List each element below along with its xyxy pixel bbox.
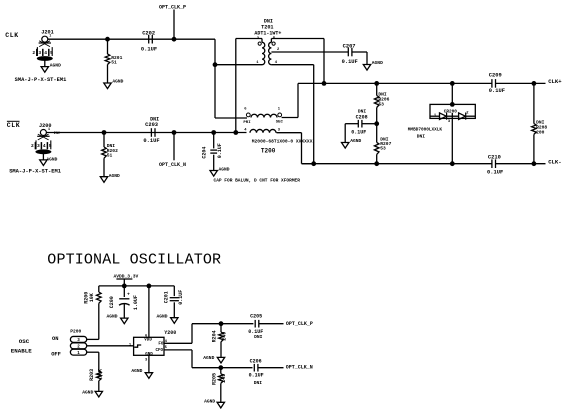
- wire diode centers: [447, 115, 459, 117]
- P200 pin 1 (OFF): [70, 349, 86, 356]
- label ON: [52, 336, 58, 342]
- wire C205 to OPT_CLK_P: [259, 323, 284, 325]
- label OFF: [51, 351, 61, 357]
- svg-text:CAP FOR BALUN, D CNT FOR XFORM: CAP FOR BALUN, D CNT FOR XFORMER: [214, 178, 301, 184]
- label T200 refdes: [261, 147, 276, 154]
- label INV at J200 pin: [54, 132, 61, 136]
- wire CLK main line: [48, 38, 215, 40]
- node junction T201 pin1 / T200 branch: [213, 62, 218, 67]
- svg-text:AGND: AGND: [82, 389, 93, 395]
- label OSC ENABLE: [11, 338, 32, 354]
- capacitor C207 0.1UF: [342, 43, 358, 64]
- ground AGND at J200: [40, 156, 58, 165]
- node junction CR200 on bottom line: [450, 161, 455, 166]
- Y200 enable pin 1 marker: [129, 344, 141, 348]
- ground AGND at R201: [104, 78, 124, 88]
- wire R207 top: [376, 124, 378, 143]
- svg-text:R203: R203: [89, 369, 95, 381]
- svg-text:10K: 10K: [97, 369, 103, 378]
- transformer T200 primary winding: [246, 113, 281, 118]
- wire R206 top: [376, 83, 378, 95]
- label CR200 part number MMBD7000LXX K DNI: [408, 127, 443, 139]
- net label OPT_CLK_P: [159, 5, 186, 11]
- svg-text:AGND: AGND: [203, 355, 214, 361]
- svg-text:SMA-J-P-X-ST-EM1: SMA-J-P-X-ST-EM1: [15, 77, 67, 83]
- svg-text:AGND: AGND: [372, 60, 383, 66]
- svg-text:OPT_CLK_N: OPT_CLK_N: [159, 162, 186, 168]
- wire P200 pin3 to R200: [87, 338, 99, 340]
- wire C204 bottom: [213, 155, 215, 171]
- svg-text:C207: C207: [343, 43, 356, 49]
- svg-text:3: 3: [38, 50, 41, 56]
- svg-text:AGND: AGND: [46, 156, 57, 162]
- wire P200 pin2 to Y200: [87, 345, 134, 347]
- svg-text:Y200: Y200: [164, 330, 176, 336]
- svg-text:53: 53: [378, 101, 384, 107]
- net label OPT_CLK_P output: [286, 321, 313, 327]
- label CR200: [444, 109, 458, 114]
- svg-text:249: 249: [221, 374, 227, 383]
- wire OPT_CLK_P stub: [173, 10, 175, 40]
- node junction T200 pin4 wire on bottom line: [311, 161, 316, 166]
- net label CLK-: [548, 159, 561, 166]
- wire R207 bottom: [376, 154, 378, 163]
- svg-text:0.1UF: 0.1UF: [143, 138, 159, 144]
- T201 pin number 4: [275, 61, 278, 65]
- wire to T201 pin 1: [215, 64, 262, 66]
- node junction OPT_CLK_N tap: [172, 130, 177, 135]
- node junction R206/R207/C208: [374, 121, 379, 126]
- Y200 FO pin: [158, 340, 167, 347]
- T201 pin number 2: [277, 48, 280, 52]
- svg-text:1: 1: [49, 35, 51, 39]
- ground AGND at C201: [157, 313, 179, 323]
- Y200 GND pin name and number: [145, 353, 153, 362]
- capacitor C201 0.1UF: [163, 286, 184, 318]
- P200 pin 3 (ON): [70, 336, 86, 343]
- node junction T201 pin6 on top line: [322, 81, 327, 86]
- svg-text:C203: C203: [145, 122, 158, 128]
- svg-text:VDD: VDD: [144, 339, 152, 343]
- ground AGND at J201: [41, 62, 61, 72]
- capacitor C205 0.1UF DNI: [248, 314, 263, 340]
- T201 secondary winding (right): [269, 39, 276, 65]
- svg-text:SEC: SEC: [276, 121, 284, 125]
- svg-text:249: 249: [221, 332, 227, 341]
- svg-text:51: 51: [111, 59, 117, 65]
- node junction C204: [211, 130, 216, 135]
- wire R208 vertical: [533, 83, 535, 163]
- node junction R202: [102, 130, 107, 135]
- wire CR200 to top line: [451, 83, 453, 104]
- svg-text:AGND: AGND: [350, 138, 361, 144]
- svg-text:C209: C209: [489, 72, 502, 78]
- svg-text:AGND: AGND: [219, 166, 230, 172]
- svg-text:OPT_CLK_P: OPT_CLK_P: [159, 5, 186, 11]
- wire AVDD rail: [99, 285, 175, 287]
- wire lower branch to C206: [221, 367, 253, 369]
- svg-text:OPT_CLK_N: OPT_CLK_N: [286, 365, 313, 371]
- resistor R207 53 DNI: [374, 137, 391, 155]
- node junction C200 on rail: [122, 284, 127, 289]
- connector J200 SMA: [31, 123, 52, 160]
- CR200 pin 1 wire and label: [430, 114, 440, 118]
- T200 pin number 4: [244, 129, 247, 133]
- T201 pin number 6: [273, 36, 276, 40]
- svg-text:5: 5: [50, 50, 53, 56]
- svg-text:1: 1: [48, 128, 50, 132]
- wire R201 top: [107, 39, 109, 54]
- wire C208 left to ground: [345, 124, 358, 143]
- svg-text:10K: 10K: [89, 293, 95, 302]
- svg-text:C200: C200: [109, 296, 115, 308]
- svg-text:ENABLE: ENABLE: [11, 347, 32, 354]
- svg-text:OSC: OSC: [19, 338, 30, 345]
- ground AGND at C207: [363, 60, 383, 70]
- T201 primary winding (left): [258, 39, 265, 65]
- svg-text:0.1UF: 0.1UF: [141, 47, 157, 53]
- wire R200 top: [98, 286, 100, 292]
- svg-text:2: 2: [31, 143, 34, 149]
- capacitor C210 0.1UF: [487, 155, 503, 176]
- svg-text:51: 51: [107, 153, 113, 159]
- svg-text:1.0UF: 1.0UF: [133, 295, 139, 310]
- T201 pin number 3: [257, 37, 260, 41]
- resistor R208 200 DNI: [532, 119, 548, 135]
- node junction OPT_CLK_P tap: [172, 37, 177, 42]
- svg-text:C206: C206: [250, 358, 262, 364]
- svg-text:4: 4: [43, 143, 46, 149]
- svg-text:AGND: AGND: [157, 313, 168, 319]
- svg-text:CLK+: CLK+: [548, 78, 562, 85]
- diode D2 of CR200: [459, 113, 466, 120]
- ground AGND at Y200: [131, 368, 152, 378]
- wire C206 to OPT_CLK_N: [258, 367, 284, 369]
- svg-text:DNI: DNI: [264, 18, 273, 24]
- wire Y200 GND: [148, 355, 150, 372]
- svg-text:CLK: CLK: [7, 122, 21, 129]
- wire CR200 to bottom line: [451, 122, 453, 164]
- capacitor C200 1.0UF: [109, 286, 139, 318]
- wire R202 bottom: [103, 158, 105, 177]
- wire CFO to lower branch: [164, 350, 221, 368]
- svg-text:FO: FO: [158, 343, 164, 347]
- net label CLK+: [548, 78, 562, 85]
- capacitor C209 0.1UF: [489, 72, 505, 94]
- svg-text:CR200: CR200: [444, 109, 458, 114]
- wire upper branch to C205: [221, 323, 253, 325]
- net label CLKB input (CLK with overbar): [7, 121, 21, 129]
- wire T201 pin6 to top line: [271, 39, 324, 84]
- svg-text:2: 2: [32, 50, 35, 56]
- capacitor C208 0.1UF DNI: [351, 108, 367, 135]
- svg-text:PRI: PRI: [243, 121, 251, 125]
- svg-text:+: +: [127, 293, 130, 298]
- ground AGND at R204: [203, 355, 224, 363]
- svg-text:J201: J201: [41, 30, 53, 36]
- svg-text:0.1UF: 0.1UF: [487, 169, 503, 175]
- node junction R208 top: [532, 81, 537, 86]
- diode package CR200 outline: [430, 104, 475, 118]
- ground AGND at C204: [210, 166, 230, 176]
- svg-text:CFO: CFO: [156, 349, 164, 353]
- wire C208 right to junction: [362, 123, 377, 125]
- diode D1 of CR200: [440, 113, 447, 120]
- label T200 part number: [252, 139, 313, 145]
- node CR200 box top: [450, 102, 455, 107]
- transformer T201 ADT1-1WT+ DNI: [254, 18, 281, 36]
- svg-text:P200: P200: [70, 329, 81, 335]
- svg-text:DNI: DNI: [358, 108, 367, 114]
- wire C207 to ground: [352, 52, 367, 65]
- svg-text:DNI: DNI: [254, 380, 263, 386]
- wire CLK corner down to T201 pin1 node: [214, 39, 216, 64]
- svg-text:DNI: DNI: [254, 334, 263, 340]
- resistor R203 10K: [89, 369, 103, 381]
- wire R205 bottom: [220, 383, 222, 402]
- svg-text:5: 5: [49, 143, 52, 149]
- svg-text:AGND: AGND: [107, 313, 118, 319]
- oscillator Y200 box: [134, 337, 164, 355]
- svg-text:OFF: OFF: [51, 351, 61, 357]
- wire CLKB main line: [46, 132, 246, 134]
- wire T201 pin2 to C207: [271, 51, 348, 53]
- power AVDD_3.3V: [114, 273, 139, 286]
- note CAP FOR BALUN: [214, 178, 301, 184]
- header P200 jumper: [70, 329, 81, 335]
- svg-text:0.1UF: 0.1UF: [351, 129, 366, 135]
- svg-text:C210: C210: [488, 155, 501, 161]
- T200 pin number 3: [278, 129, 281, 133]
- svg-text:AGND: AGND: [109, 173, 120, 179]
- svg-text:C201: C201: [163, 291, 169, 303]
- svg-text:MMBD7000LXXLK: MMBD7000LXXLK: [408, 127, 443, 132]
- resistor R204 249: [211, 330, 227, 342]
- wire R204 top: [220, 324, 222, 332]
- svg-text:0.1UF: 0.1UF: [178, 290, 184, 305]
- node junction R205: [218, 365, 223, 370]
- connector J201 SMA: [32, 30, 53, 67]
- svg-text:CLK-: CLK-: [548, 159, 561, 166]
- title OPTIONAL OSCILLATOR: [47, 251, 221, 268]
- CR200 pin 2 wire and label: [466, 112, 476, 117]
- T201 pin number 1: [256, 61, 259, 65]
- resistor R205 249: [211, 373, 227, 385]
- node junction R201: [105, 37, 110, 42]
- svg-text:AGND: AGND: [50, 62, 61, 68]
- node junction R208 bottom: [532, 161, 537, 166]
- net label CLK input: [5, 32, 19, 39]
- node junction R206 on top line: [374, 81, 379, 86]
- P200 pin 2 (common): [70, 343, 86, 350]
- svg-text:0.1UF: 0.1UF: [217, 143, 223, 158]
- svg-text:OPTIONAL OSCILLATOR: OPTIONAL OSCILLATOR: [47, 251, 221, 268]
- ground AGND at R205: [204, 398, 224, 408]
- T200 pin number 1: [278, 108, 281, 112]
- resistor R202 51 DNI: [102, 143, 118, 159]
- svg-text:T201: T201: [261, 25, 273, 31]
- wire R205 top: [220, 368, 222, 374]
- resistor R206 53 DNI: [374, 92, 389, 108]
- wire T200 pin1 to top line: [282, 83, 298, 117]
- wire Y200 VDD: [148, 286, 150, 337]
- label SMA-J-P-X-ST-EM1 for J201: [15, 77, 67, 83]
- CR200 center pin 3 bar: [448, 113, 452, 124]
- svg-text:T200: T200: [261, 147, 276, 154]
- wire bottom output line CLK-: [302, 163, 546, 165]
- ground AGND at C208: [342, 138, 362, 148]
- wire CLKB up to T201 pin 3: [236, 39, 262, 133]
- net label OPT_CLK_N output: [286, 365, 313, 371]
- wire down to T200 pin 6: [215, 65, 247, 118]
- svg-text:0.1UF: 0.1UF: [489, 88, 505, 94]
- wire R202 top: [103, 133, 105, 148]
- svg-text:CLK: CLK: [5, 32, 19, 39]
- wire top output line CLK+: [298, 82, 546, 84]
- svg-text:OPT_CLK_P: OPT_CLK_P: [286, 321, 313, 327]
- resistor R200 10K: [83, 292, 101, 304]
- label PRI: [243, 121, 251, 125]
- capacitor C202 0.1UF: [141, 30, 157, 52]
- wire R200 bottom to P200 pin3: [98, 303, 100, 339]
- ground AGND at R202: [100, 173, 120, 182]
- wire OPT_CLK_N stub: [173, 133, 175, 161]
- ground AGND at R203: [82, 389, 102, 397]
- svg-text:ADT1-1WT+: ADT1-1WT+: [254, 31, 281, 37]
- node junction T201 pin3 branch: [233, 130, 238, 135]
- svg-text:3: 3: [37, 143, 40, 149]
- svg-text:M2000-68T1X00-0 XXXXXX: M2000-68T1X00-0 XXXXXX: [252, 139, 313, 145]
- wire R204 bottom: [220, 342, 222, 358]
- wire T201 pin4 to bottom line: [271, 65, 313, 164]
- net label OPT_CLK_N: [159, 162, 186, 168]
- wire R206 bottom: [376, 108, 378, 124]
- label SMA-J-P-X-ST-EM1 for J200: [9, 169, 61, 175]
- wire T200 pin3 to bottom line: [277, 133, 314, 164]
- svg-text:C205: C205: [250, 314, 262, 320]
- svg-text:C202: C202: [142, 30, 155, 36]
- svg-text:DNI: DNI: [417, 133, 426, 139]
- node junction Y200 VDD on rail: [147, 284, 152, 289]
- ground AGND at C200: [107, 313, 129, 323]
- wire P200 pin1 to R203: [87, 352, 99, 371]
- node junction CR200 on top line: [450, 81, 455, 86]
- wire R201 bottom: [107, 65, 109, 84]
- svg-text:C208: C208: [356, 115, 368, 121]
- svg-text:DNI: DNI: [107, 143, 116, 149]
- wire C204 top: [213, 133, 215, 149]
- svg-text:ON: ON: [52, 336, 58, 342]
- Y200 CFO pin: [156, 346, 168, 353]
- resistor R201 51: [105, 54, 122, 65]
- svg-text:53: 53: [380, 146, 386, 152]
- Y200 VDD pin name and number: [144, 334, 152, 342]
- label SEC: [276, 121, 284, 125]
- svg-text:DNI: DNI: [536, 119, 545, 125]
- capacitor C203 0.1UF DNI: [143, 116, 159, 144]
- label Y200: [164, 330, 176, 336]
- wire R203 bottom: [98, 381, 100, 392]
- svg-text:SMA-J-P-X-ST-EM1: SMA-J-P-X-ST-EM1: [9, 169, 61, 175]
- capacitor C206 0.1UF DNI: [249, 358, 264, 386]
- svg-text:AGND: AGND: [131, 368, 142, 374]
- svg-text:0.1UF: 0.1UF: [248, 329, 263, 335]
- svg-text:R205: R205: [211, 373, 217, 385]
- svg-text:R204: R204: [211, 330, 217, 342]
- T200 pin number 6: [244, 108, 247, 112]
- wire FO to upper branch: [164, 324, 221, 344]
- svg-text:0.1UF: 0.1UF: [249, 373, 264, 379]
- capacitor C204 0.1UF: [202, 143, 223, 158]
- svg-text:0.1UF: 0.1UF: [342, 59, 358, 65]
- svg-text:AGND: AGND: [204, 398, 215, 404]
- svg-text:AGND: AGND: [112, 78, 123, 84]
- svg-text:200: 200: [536, 130, 545, 136]
- svg-text:C204: C204: [202, 147, 208, 159]
- node junction R207 on bottom line: [374, 161, 379, 166]
- svg-text:4: 4: [44, 50, 47, 56]
- transformer T200 secondary winding: [250, 129, 276, 132]
- node junction R204: [219, 321, 224, 326]
